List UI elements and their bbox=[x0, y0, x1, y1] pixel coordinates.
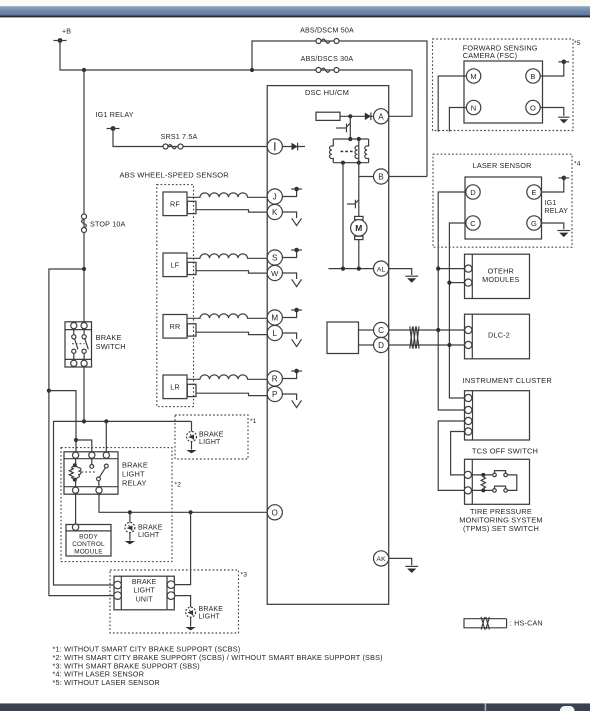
bottom right white pill bbox=[560, 706, 575, 711]
svg-text:G: G bbox=[531, 219, 537, 228]
junction STOP branch bbox=[82, 68, 86, 72]
resistor inside DSC near A bbox=[316, 112, 340, 120]
svg-text:(TPMS) SET SWITCH: (TPMS) SET SWITCH bbox=[463, 524, 539, 533]
wire BLU right pin1 feed bbox=[175, 512, 191, 584]
pin R bbox=[267, 371, 282, 386]
junction motor return bbox=[357, 267, 361, 271]
top cream strip bbox=[0, 0, 590, 6]
svg-text:ABS WHEEL-SPEED SENSOR: ABS WHEEL-SPEED SENSOR bbox=[120, 170, 230, 179]
top bar dark underline bbox=[0, 16, 590, 18]
svg-text:BRAKE: BRAKE bbox=[132, 579, 157, 586]
wire solenoid feed drop bbox=[349, 116, 351, 139]
svg-text:IG1 RELAY: IG1 RELAY bbox=[96, 110, 134, 119]
ground arrow after pin L bbox=[282, 333, 301, 347]
wire 50A riser bbox=[252, 41, 427, 177]
wire relay T2 feed bbox=[76, 440, 92, 452]
pin O of FSC bbox=[526, 100, 540, 114]
OTEHR modules box bbox=[465, 254, 530, 298]
svg-text:LIGHT: LIGHT bbox=[122, 469, 145, 478]
junction left branch bbox=[82, 267, 86, 271]
pin 1 DLC-2 bbox=[465, 326, 472, 333]
transistor on solenoid feed bbox=[336, 123, 350, 132]
svg-text:BRAKE: BRAKE bbox=[122, 460, 148, 469]
svg-text:RELAY: RELAY bbox=[545, 207, 569, 215]
junction solenoid return bbox=[341, 267, 345, 271]
pin 2 IC bbox=[465, 406, 472, 413]
pin K bbox=[267, 204, 282, 219]
junction relay feed bbox=[47, 389, 51, 393]
wire RR return bbox=[196, 332, 267, 334]
wire IC pin4 to TPMS upper bbox=[451, 432, 465, 475]
ground after AL bbox=[405, 276, 418, 283]
svg-text:SRS1 7.5A: SRS1 7.5A bbox=[161, 133, 198, 141]
svg-text:LIGHT: LIGHT bbox=[199, 439, 221, 446]
terminal after pin J bbox=[282, 187, 302, 197]
dashed sensor enclosure bbox=[157, 185, 194, 407]
pin G of laser bbox=[527, 216, 541, 230]
svg-text:N: N bbox=[471, 104, 477, 113]
wire CAN-L to OTEHR bbox=[449, 282, 464, 284]
pin C of laser bbox=[466, 216, 480, 230]
resistor between TPMS nodes bbox=[481, 477, 485, 488]
svg-text:IG1: IG1 bbox=[545, 199, 557, 207]
pin I bbox=[267, 139, 282, 154]
svg-text:SWITCH: SWITCH bbox=[96, 342, 126, 351]
TPMS internal wiring bbox=[472, 471, 517, 493]
svg-text:BRAKE: BRAKE bbox=[96, 333, 122, 342]
terminal laser E bbox=[558, 176, 569, 181]
HS-CAN legend symbol bbox=[464, 617, 543, 630]
svg-text:J: J bbox=[273, 193, 277, 202]
twisted pair symbol bbox=[410, 326, 419, 348]
pin B of FSC bbox=[526, 69, 540, 83]
ground FSC O bbox=[558, 117, 569, 123]
pin 1 left BLU bbox=[114, 581, 122, 589]
pin 1 OTEHR bbox=[465, 265, 472, 272]
brake switch S1 bbox=[65, 322, 126, 367]
laser sensor module box bbox=[465, 161, 542, 239]
wire relay coil to BCM bbox=[75, 493, 77, 524]
body control module box bbox=[66, 524, 111, 556]
svg-text:LIGHT: LIGHT bbox=[138, 532, 160, 539]
wire 30A to pin A bbox=[389, 70, 412, 116]
DLC-2 box bbox=[465, 314, 530, 359]
pin M of FSC bbox=[466, 69, 480, 83]
dashed box option 3 bbox=[110, 570, 239, 633]
ground arrow after pin P bbox=[282, 394, 301, 408]
wire CAN-H trunk from laser D bbox=[438, 192, 466, 410]
pin L bbox=[267, 325, 282, 340]
pin 1 IC bbox=[465, 394, 472, 401]
svg-text:MODULE: MODULE bbox=[74, 548, 102, 555]
pin 2 OTEHR bbox=[465, 279, 472, 286]
svg-text:O: O bbox=[272, 508, 278, 517]
pin 2 TPMS bbox=[464, 487, 471, 494]
ground laser G bbox=[557, 231, 570, 238]
wire CAN-L trunk from laser C bbox=[449, 223, 466, 398]
svg-text:L: L bbox=[272, 329, 277, 338]
wire BLU right pin2 to bulb bbox=[175, 596, 191, 608]
wire STOP feed bbox=[83, 70, 85, 322]
dashed box option 2 bbox=[61, 448, 172, 562]
pump motor M1 bbox=[351, 216, 367, 239]
svg-text:DLC-2: DLC-2 bbox=[488, 331, 510, 340]
svg-text:MODULES: MODULES bbox=[482, 275, 519, 284]
sensor RF bbox=[163, 192, 196, 216]
wire LR return bbox=[196, 393, 267, 395]
fuse ABS/DSCS 30A bbox=[301, 55, 354, 72]
wire FSC O to ground bbox=[540, 108, 564, 117]
pin 2 right BLU bbox=[167, 592, 175, 600]
pin 2 left BLU bbox=[114, 592, 122, 600]
wire pin AL to ground bbox=[389, 269, 412, 275]
pin D bbox=[374, 337, 389, 352]
pin N of FSC bbox=[466, 100, 480, 114]
svg-text:*1: *1 bbox=[250, 418, 257, 425]
relay switch bbox=[82, 459, 109, 487]
svg-text:M: M bbox=[355, 223, 362, 233]
svg-text:B: B bbox=[378, 173, 384, 182]
junction CAN-L at DLC bbox=[447, 343, 451, 347]
wire pin B to 50A bbox=[389, 176, 427, 178]
svg-text:A: A bbox=[378, 112, 384, 121]
svg-text:BRAKE: BRAKE bbox=[199, 606, 224, 613]
svg-text:R: R bbox=[272, 375, 278, 384]
junction brake light branch bbox=[128, 510, 132, 514]
pin C bbox=[374, 322, 389, 337]
wire LF return bbox=[196, 271, 267, 273]
wire LF signal with coil bbox=[187, 254, 267, 258]
svg-text:CONTROL: CONTROL bbox=[72, 541, 105, 548]
pin 4 IC bbox=[465, 428, 472, 435]
wire box to pin C bbox=[359, 329, 374, 331]
wire relay output to pin O bbox=[99, 493, 267, 512]
svg-text:C: C bbox=[378, 326, 384, 335]
wire FSC B to power terminal bbox=[540, 64, 564, 76]
junction at switch output bbox=[82, 419, 86, 423]
svg-text:LASER SENSOR: LASER SENSOR bbox=[473, 161, 532, 170]
svg-text:E: E bbox=[531, 188, 536, 197]
brake light unit box bbox=[114, 576, 174, 610]
FSC module box bbox=[463, 44, 543, 123]
transistor on pump branch bbox=[347, 200, 359, 209]
junction relay feed split bbox=[74, 438, 78, 442]
svg-text:: HS-CAN: : HS-CAN bbox=[510, 619, 543, 628]
wire IG1 to pin I bbox=[113, 131, 267, 147]
fuse ABS/DSCM 50A bbox=[300, 27, 354, 44]
TPMS switch contact bbox=[493, 489, 497, 493]
pin A bbox=[374, 109, 389, 124]
svg-text:BODY: BODY bbox=[79, 534, 98, 541]
svg-text:INSTRUMENT CLUSTER: INSTRUMENT CLUSTER bbox=[463, 376, 553, 385]
svg-text:CAMERA (FSC): CAMERA (FSC) bbox=[463, 51, 517, 60]
svg-text:UNIT: UNIT bbox=[136, 596, 154, 603]
svg-text:BRAKE: BRAKE bbox=[199, 432, 224, 439]
diode after pin I bbox=[282, 143, 305, 151]
svg-text:M: M bbox=[470, 72, 476, 81]
wire FSC M CAN-H drop bbox=[438, 76, 466, 132]
pin 2 DLC-2 bbox=[465, 341, 472, 348]
wire relay coil feed bbox=[49, 391, 76, 452]
ground after AK bbox=[405, 566, 418, 573]
CAN transceiver box near C/D bbox=[327, 322, 359, 354]
wire resistor to pin A bbox=[340, 115, 374, 117]
terminal after pin M bbox=[282, 308, 302, 318]
fuse STOP 10A bbox=[82, 214, 126, 233]
svg-text:ABS/DSCS 30A: ABS/DSCS 30A bbox=[301, 55, 354, 63]
label TPMS bbox=[459, 507, 542, 533]
svg-text:*5: WITHOUT LASER SENSOR: *5: WITHOUT LASER SENSOR bbox=[53, 678, 160, 687]
pin M bbox=[267, 310, 282, 325]
pin 1 right BLU bbox=[167, 581, 175, 589]
junction brake light unit branch bbox=[189, 510, 193, 514]
pin J bbox=[267, 189, 282, 204]
junction CAN-L OTEHR bbox=[447, 281, 451, 285]
bottom dark bar bbox=[0, 703, 590, 711]
svg-text:+B: +B bbox=[62, 29, 71, 36]
relay coil and resistor bbox=[69, 459, 81, 487]
wire CAN-L pin D to DLC-2 bbox=[389, 344, 465, 346]
pin 3 IC bbox=[465, 417, 472, 424]
svg-text:LR: LR bbox=[170, 383, 180, 392]
wire pump branch from pin B bbox=[359, 139, 374, 269]
junction CAN-H OTEHR bbox=[436, 267, 440, 271]
svg-text:RF: RF bbox=[170, 200, 180, 209]
wire solenoid return drop bbox=[342, 163, 344, 269]
junction relay T3 branch bbox=[104, 419, 108, 423]
pin AK bbox=[374, 551, 389, 566]
wire RF signal with coil bbox=[187, 193, 267, 197]
junction CAN-H at DLC bbox=[436, 328, 440, 332]
svg-text:W: W bbox=[271, 269, 279, 278]
svg-text:B: B bbox=[530, 72, 535, 81]
wire RF return bbox=[196, 210, 267, 212]
diode before pin A bbox=[365, 113, 371, 121]
wire RR signal with coil bbox=[187, 314, 267, 318]
terminal after pin S bbox=[282, 248, 302, 258]
TCS switch contact bbox=[493, 473, 497, 477]
dashed enclosure FSC bbox=[433, 39, 574, 131]
pin S bbox=[267, 250, 282, 265]
svg-text:P: P bbox=[272, 390, 278, 399]
wire pin AK to ground bbox=[389, 558, 412, 565]
svg-text:*3: *3 bbox=[241, 571, 248, 578]
svg-text:S: S bbox=[272, 254, 278, 263]
dashed box option 1 bbox=[175, 415, 248, 459]
fuse SRS1 7.5A bbox=[161, 133, 198, 149]
svg-text:D: D bbox=[470, 188, 476, 197]
sensor RR bbox=[163, 315, 196, 339]
wire laser E to power terminal bbox=[541, 180, 564, 192]
top blue bar bbox=[0, 6, 590, 15]
wire +B feed to fuses bbox=[60, 43, 412, 70]
wire left trunk to brake light unit T2 bbox=[49, 269, 114, 596]
brake light relay K1 bbox=[64, 452, 148, 494]
wire laser G to ground bbox=[541, 223, 564, 229]
ground arrow after pin K bbox=[282, 212, 301, 226]
instrument cluster box bbox=[465, 391, 530, 440]
terminal FSC B bbox=[558, 60, 569, 65]
svg-text:AK: AK bbox=[376, 556, 386, 563]
solenoid valve coil bank bbox=[330, 137, 369, 165]
pin W bbox=[267, 265, 282, 280]
wire brake switch output bbox=[83, 367, 85, 421]
wire LR signal with coil bbox=[187, 375, 267, 379]
pin O bbox=[267, 505, 282, 520]
wire CAN-H pin C to DLC-2 bbox=[389, 329, 465, 331]
sensor LF bbox=[163, 253, 196, 277]
svg-text:LF: LF bbox=[171, 261, 180, 270]
brake light bulb option2 bbox=[125, 512, 163, 544]
DSC HU/CM module box U1 bbox=[267, 86, 389, 605]
pin E of laser bbox=[527, 185, 541, 199]
TPMS switch box bbox=[465, 459, 530, 504]
svg-text:M: M bbox=[271, 314, 278, 323]
svg-text:BRAKE: BRAKE bbox=[138, 525, 163, 532]
svg-text:O: O bbox=[530, 104, 536, 113]
svg-text:*2: *2 bbox=[175, 481, 182, 488]
dashed enclosure laser sensor bbox=[433, 154, 572, 247]
svg-text:K: K bbox=[272, 208, 278, 217]
svg-text:TCS OFF SWITCH: TCS OFF SWITCH bbox=[472, 447, 538, 456]
junction solenoid feed bbox=[348, 114, 352, 118]
ground arrow after pin W bbox=[282, 273, 301, 287]
node +B terminal bbox=[54, 29, 72, 43]
svg-text:LIGHT: LIGHT bbox=[133, 588, 155, 595]
IG1 relay terminal bbox=[96, 110, 134, 131]
svg-text:D: D bbox=[378, 341, 384, 350]
pin P bbox=[267, 386, 282, 401]
svg-text:AL: AL bbox=[377, 266, 386, 273]
wire IC pin3 to TPMS lower bbox=[438, 421, 465, 490]
svg-text:*5: *5 bbox=[574, 40, 581, 47]
wire box to pin D bbox=[359, 344, 374, 346]
svg-text:*4: *4 bbox=[574, 161, 581, 168]
brake light bulb option3 bbox=[185, 606, 223, 631]
svg-text:DSC HU/CM: DSC HU/CM bbox=[305, 88, 349, 97]
svg-text:C: C bbox=[470, 219, 476, 228]
wire FSC N CAN-L drop bbox=[449, 108, 466, 132]
junction at 50A riser bbox=[250, 68, 254, 72]
pin D of laser bbox=[466, 185, 480, 199]
pin AL bbox=[374, 261, 389, 276]
AL ground bus bbox=[328, 268, 373, 270]
terminal after pin R bbox=[282, 369, 302, 379]
svg-text:LIGHT: LIGHT bbox=[199, 613, 221, 620]
pin B bbox=[374, 169, 389, 184]
svg-text:RELAY: RELAY bbox=[122, 479, 147, 488]
wire stop lamp trunk bbox=[54, 421, 192, 585]
wire relay T3 drop bbox=[105, 421, 107, 451]
wire CAN-H to OTEHR bbox=[438, 268, 465, 270]
sensor LR bbox=[163, 375, 196, 399]
svg-text:STOP 10A: STOP 10A bbox=[90, 220, 126, 229]
svg-text:ABS/DSCM 50A: ABS/DSCM 50A bbox=[300, 27, 354, 35]
pin 1 TPMS bbox=[464, 471, 471, 478]
brake light bulb option1 bbox=[186, 421, 223, 453]
svg-text:RR: RR bbox=[170, 322, 181, 331]
bottom bar separator line bbox=[485, 703, 487, 711]
